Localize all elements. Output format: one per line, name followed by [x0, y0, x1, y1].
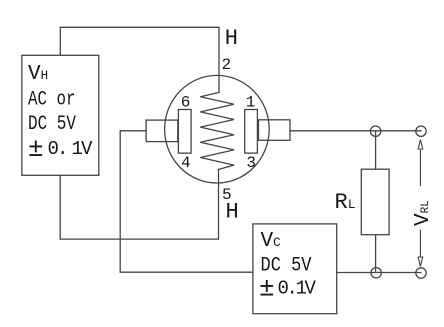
- svg-text:±0.1V: ±0.1V: [28, 134, 93, 164]
- sensor right electrode plate: [245, 110, 258, 154]
- svg-text:5: 5: [222, 186, 232, 204]
- svg-text:±0.1V: ±0.1V: [259, 273, 317, 303]
- VRL arrow shaft lower: [419, 230, 421, 257]
- svg-text:H: H: [225, 26, 238, 51]
- svg-text:3: 3: [246, 154, 256, 172]
- terminal circle bottom-right output: [416, 268, 426, 278]
- wire sensor pin 4/6 lead to V_C left: [120, 131, 253, 272]
- wire sensor pin 1/3 lead to output terminal: [290, 130, 421, 132]
- terminal circle bottom-left junction: [371, 268, 381, 278]
- svg-text:2: 2: [222, 56, 232, 74]
- VRL arrowhead down: [418, 257, 423, 266]
- sensor heater resistor zigzag: [200, 92, 234, 169]
- wire sensor pin 5 to V_H bottom: [60, 169, 218, 239]
- sensor right lead block: [259, 120, 291, 141]
- VRL arrow shaft upper: [419, 149, 421, 187]
- sensor left lead block: [146, 120, 178, 142]
- sensor envelope circle: [165, 75, 270, 183]
- svg-text:1: 1: [246, 93, 256, 111]
- terminal circle top-right output: [416, 126, 426, 136]
- wire RL bottom branch: [375, 235, 377, 273]
- svg-text:DC 5V: DC 5V: [28, 113, 76, 136]
- VRL arrowhead up: [418, 140, 423, 149]
- resistor RL body: [361, 169, 389, 235]
- svg-text:4: 4: [181, 154, 191, 172]
- wire V_H top to sensor pin 2: [60, 27, 219, 92]
- wire RL top branch: [375, 131, 377, 169]
- svg-text:6: 6: [181, 93, 191, 111]
- voltage source box VC: [253, 224, 337, 314]
- sensor left electrode plate: [178, 110, 191, 154]
- voltage source box VH: [22, 55, 99, 175]
- terminal circle top-left junction: [370, 126, 380, 136]
- svg-text:AC or: AC or: [28, 89, 76, 112]
- wire V_C right to bottom terminals: [337, 272, 421, 274]
